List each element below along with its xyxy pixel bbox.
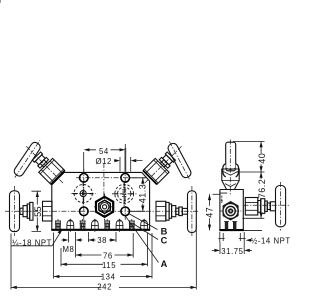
svg-text:242: 242 bbox=[97, 282, 112, 291]
svg-text:41.3: 41.3 bbox=[137, 184, 147, 204]
svg-text:115: 115 bbox=[102, 261, 116, 270]
svg-text:55: 55 bbox=[33, 206, 43, 217]
svg-text:40: 40 bbox=[257, 153, 267, 164]
svg-text:½-14 NPT: ½-14 NPT bbox=[251, 236, 291, 245]
svg-text:38: 38 bbox=[97, 236, 107, 245]
svg-text:76.2: 76.2 bbox=[257, 179, 267, 199]
svg-text:C: C bbox=[161, 236, 168, 246]
svg-text:Ø12: Ø12 bbox=[96, 157, 112, 166]
svg-text:76: 76 bbox=[103, 251, 113, 260]
svg-text:31.75: 31.75 bbox=[221, 247, 243, 256]
svg-text:A: A bbox=[161, 259, 168, 269]
svg-text:134: 134 bbox=[101, 273, 116, 282]
svg-text:M8: M8 bbox=[63, 245, 75, 254]
svg-text:47: 47 bbox=[205, 207, 215, 218]
svg-text:54: 54 bbox=[99, 147, 109, 156]
